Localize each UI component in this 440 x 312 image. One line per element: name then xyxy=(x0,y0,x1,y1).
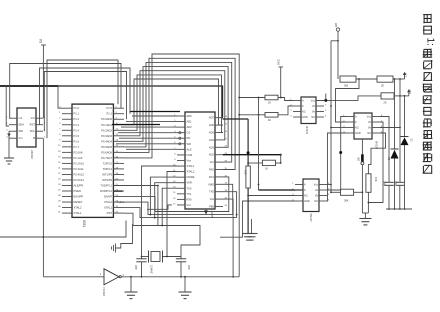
resistor R9 horizontal xyxy=(330,189,362,202)
svg-text:1K: 1K xyxy=(265,168,268,171)
svg-text:P0.4AD4: P0.4AD4 xyxy=(101,139,112,143)
svg-text:VMD: VMD xyxy=(208,182,214,186)
wire h2 MCU202 to IC2 row184 xyxy=(124,184,233,214)
IC U6 optocoupler xyxy=(343,113,383,150)
svg-text:GND: GND xyxy=(304,199,310,203)
wire row1 to R6 xyxy=(356,78,377,80)
capacitor C2 xyxy=(176,257,191,278)
svg-text:XTAL1: XTAL1 xyxy=(104,206,113,210)
svg-text:TX0: TX0 xyxy=(187,186,192,190)
svg-text:AD6: AD6 xyxy=(209,123,215,127)
svg-text:RX1: RX1 xyxy=(209,175,215,179)
IC U2 8031 MCU xyxy=(58,104,124,227)
ground GND2 xyxy=(125,276,138,299)
svg-text:P0.2AD2: P0.2AD2 xyxy=(101,128,112,132)
svg-text:RXD/P3.0: RXD/P3.0 xyxy=(100,189,112,193)
svg-text:SDA: SDA xyxy=(19,123,25,127)
svg-text:P1.5: P1.5 xyxy=(74,134,80,138)
svg-text:2K: 2K xyxy=(381,85,384,88)
wire bus loop outer (MCU 157.9 over top to h1) xyxy=(124,54,239,277)
svg-text:A: A xyxy=(304,183,306,187)
resistor R3 xyxy=(262,160,281,170)
svg-text:TX0: TX0 xyxy=(209,190,214,194)
svg-text:RST: RST xyxy=(107,211,113,215)
wire bold bus row2 xyxy=(112,124,160,126)
resistor R2 xyxy=(265,113,278,122)
wire v331 long xyxy=(330,41,338,192)
wire RST net down left xyxy=(0,138,126,277)
svg-text:XTAL1: XTAL1 xyxy=(74,211,83,215)
svg-text:RESET: RESET xyxy=(74,200,83,204)
svg-text:12MHZ: 12MHZ xyxy=(150,265,154,274)
wire ground join G5 xyxy=(362,213,368,218)
wire MCU185 node xyxy=(113,185,158,226)
label dbus xyxy=(117,201,125,204)
svg-text:Vcc: Vcc xyxy=(187,203,192,207)
wire IC5 r1 to cap Ca xyxy=(380,117,389,183)
svg-text:8155: 8155 xyxy=(210,211,214,218)
svg-text:CA: CA xyxy=(19,116,23,120)
capacitor C5 xyxy=(394,181,404,210)
svg-text:74LS04: 74LS04 xyxy=(102,287,106,297)
svg-text:XTAL2: XTAL2 xyxy=(104,200,113,204)
svg-text:NC: NC xyxy=(367,131,371,135)
IC U4 optocoupler xyxy=(290,97,327,135)
svg-text:NC: NC xyxy=(314,199,318,203)
svg-text:CS: CS xyxy=(187,131,191,135)
svg-text:ALE/PR: ALE/PR xyxy=(74,183,84,187)
svg-text:P1.3: P1.3 xyxy=(74,123,80,127)
svg-text:P2.4A12: P2.4A12 xyxy=(74,172,85,176)
svg-text:WR: WR xyxy=(187,142,191,146)
ground sideways xyxy=(112,224,133,253)
wire rail input xyxy=(43,276,104,278)
svg-text:K: K xyxy=(304,188,306,192)
svg-text:Vss: Vss xyxy=(187,158,192,162)
svg-text:1K: 1K xyxy=(268,102,271,105)
wire IC5 r4 loop to R8 xyxy=(368,133,385,174)
svg-text:10K: 10K xyxy=(244,170,247,175)
svg-text:VCC: VCC xyxy=(277,59,281,65)
svg-text:Vcc: Vcc xyxy=(314,183,319,187)
svg-text:SCL: SCL xyxy=(30,129,36,133)
wire h4 MCU213 to crystal cap2 xyxy=(124,213,200,256)
wire IC2 row12 down xyxy=(150,177,178,215)
svg-text:XTAL2: XTAL2 xyxy=(74,206,83,210)
wire bus loop x134 xyxy=(124,79,223,125)
svg-text:GB: GB xyxy=(334,23,338,27)
svg-text:NC: NC xyxy=(304,194,308,198)
wire R2 to IC3 pin2 xyxy=(278,106,293,115)
wire MCU pin1 from bold net xyxy=(58,86,62,108)
svg-text:30P: 30P xyxy=(134,265,138,270)
svg-text:TX1: TX1 xyxy=(187,192,192,196)
svg-text:Vcc: Vcc xyxy=(210,160,215,164)
wire R8 down xyxy=(368,192,370,213)
svg-text:RX0: RX0 xyxy=(187,197,193,201)
svg-text:c dbus: c dbus xyxy=(117,201,125,204)
svg-text:T0/P3.4: T0/P3.4 xyxy=(103,167,113,171)
svg-text:P0.0AD0: P0.0AD0 xyxy=(101,117,112,121)
svg-text:6N137: 6N137 xyxy=(305,126,309,135)
wire U1.6 to MCU P1.1 xyxy=(40,68,131,125)
svg-text:RD: RD xyxy=(187,136,191,140)
wire bus row thin g xyxy=(126,148,177,150)
svg-text:AD7: AD7 xyxy=(209,116,215,120)
wire crystal node row xyxy=(141,256,181,258)
power GB node xyxy=(334,23,340,42)
wire XTAL1 net xyxy=(142,166,178,257)
svg-text:EA/VP: EA/VP xyxy=(104,195,112,199)
wire row1 right end xyxy=(393,72,408,80)
wire bus loop x143 xyxy=(124,67,228,148)
resistor R7 row2 xyxy=(381,93,394,105)
wire row2 net xyxy=(316,94,381,102)
svg-text:INT1/P3: INT1/P3 xyxy=(102,172,112,176)
wire MCU bold stub xyxy=(114,190,123,192)
svg-text:L24: L24 xyxy=(404,72,408,77)
wire IC5 r2 to ground stem xyxy=(368,122,383,203)
IC U1 24C02 EEPROM xyxy=(6,108,46,159)
svg-text:P1.2: P1.2 xyxy=(74,117,80,121)
svg-text:NC: NC xyxy=(355,126,359,130)
svg-text:P2.0A8: P2.0A8 xyxy=(74,150,83,154)
svg-text:P0.1AD1: P0.1AD1 xyxy=(101,123,112,127)
svg-text:P1.6: P1.6 xyxy=(74,139,80,143)
resistor R6 row1 right xyxy=(377,76,393,88)
svg-text:AD5: AD5 xyxy=(209,131,215,135)
svg-text:Vss: Vss xyxy=(210,197,215,201)
wire GB down to Rd xyxy=(337,41,339,79)
svg-text:K: K xyxy=(302,104,304,108)
wire bus row thin b xyxy=(121,126,177,128)
resistor R1 xyxy=(265,95,278,104)
wire row2 right end xyxy=(394,89,412,97)
wire IC2 row14 down xyxy=(161,188,177,226)
wire IC4 pin1 right xyxy=(327,184,332,186)
svg-text:TXD/P3.1: TXD/P3.1 xyxy=(100,183,112,187)
svg-text:AD2: AD2 xyxy=(209,153,215,157)
svg-text:P0.3AD3: P0.3AD3 xyxy=(101,134,112,138)
svg-text:10K: 10K xyxy=(374,177,377,182)
svg-text:360: 360 xyxy=(344,85,349,88)
wire IC2 row13 down xyxy=(154,183,177,219)
ground GND4 xyxy=(246,219,258,240)
svg-text:Vcc: Vcc xyxy=(311,99,316,103)
wire IC4 pin2 right to IC5 xyxy=(327,117,346,191)
wire U1.1 to MCU P1.0 xyxy=(10,64,121,119)
wire v400 down caps xyxy=(399,96,401,182)
svg-text:K: K xyxy=(355,120,357,124)
ground IC2 bottom xyxy=(204,209,214,218)
svg-text:P0.7AD7: P0.7AD7 xyxy=(101,156,112,160)
wire rail output xyxy=(121,276,239,278)
svg-text:P1.1: P1.1 xyxy=(106,112,112,116)
capacitor C4 xyxy=(383,181,394,210)
wire R3 net xyxy=(247,155,281,164)
title text vertical xyxy=(423,14,436,174)
resistor R8 vertical xyxy=(366,174,377,193)
wire bus row thin e xyxy=(119,137,177,139)
svg-text:2K: 2K xyxy=(384,102,387,105)
wire U1.7 to MCU P1.2 xyxy=(44,72,126,132)
node EA wire xyxy=(39,38,46,118)
wire h1 MCU196 to IC2 row176 xyxy=(124,177,229,212)
wire IC4 pin4 right to IC5 pin4 xyxy=(327,133,346,201)
svg-text:B: B xyxy=(33,136,35,140)
wire bus loop x146 xyxy=(124,62,232,162)
wire bus loop x137 xyxy=(124,75,223,133)
IC U5 optocoupler xyxy=(292,179,330,222)
svg-text:GND: GND xyxy=(302,115,308,119)
resistor R4 vertical xyxy=(244,166,251,188)
wire IC5 pin3 left xyxy=(331,127,346,129)
svg-text:30P: 30P xyxy=(187,265,191,270)
crystal Y1 xyxy=(149,251,163,274)
wire bus loop x140 xyxy=(124,71,225,140)
wire IC4 pin4 to bottom corner xyxy=(220,201,295,237)
svg-text:PB0: PB0 xyxy=(209,205,215,209)
IC U3 8155 expander xyxy=(173,112,228,209)
svg-text:AD3: AD3 xyxy=(209,145,215,149)
svg-text:P1.7: P1.7 xyxy=(74,145,80,149)
wire IC4 pin3 left xyxy=(247,195,295,197)
diode D1 xyxy=(401,137,413,146)
svg-text:PSEN: PSEN xyxy=(74,189,81,193)
svg-text:AD2: AD2 xyxy=(187,125,193,129)
wire Rd loop down to IC5 pin2 xyxy=(336,78,360,122)
svg-text:P1.0: P1.0 xyxy=(106,106,112,110)
wire bus row thin d xyxy=(132,115,177,117)
wire bus row thin f xyxy=(116,143,177,145)
svg-text:ALE: ALE xyxy=(187,147,192,151)
op-amp U7 inverter xyxy=(100,269,125,297)
wire row2 net xyxy=(238,114,265,116)
svg-text:P2.3A11: P2.3A11 xyxy=(74,167,85,171)
ground under R4 xyxy=(242,233,254,240)
wire rail right xyxy=(386,208,412,210)
wire bold IC2 row6 xyxy=(223,154,282,156)
wire h3 MCU207 to IC2 row191 xyxy=(124,192,238,218)
svg-text:NC: NC xyxy=(302,110,306,114)
wire row1 net xyxy=(238,97,265,99)
svg-text:1K: 1K xyxy=(268,119,271,122)
wire bold vertical R4 branch xyxy=(223,119,250,233)
svg-text:IO/M: IO/M xyxy=(187,153,193,157)
svg-text:P2.2A10: P2.2A10 xyxy=(74,161,85,165)
ground GND5 xyxy=(359,219,371,225)
svg-text:AD0: AD0 xyxy=(187,114,193,118)
wire U1 pin2 from bold net xyxy=(5,85,59,126)
capacitor C1 xyxy=(134,257,147,278)
svg-text:NC: NC xyxy=(311,115,315,119)
svg-text:P1.0: P1.0 xyxy=(74,106,80,110)
wire IC2 row199 to rail xyxy=(223,199,234,278)
diode D2 xyxy=(387,149,399,161)
svg-text:A: A xyxy=(355,115,357,119)
svg-text:RST: RST xyxy=(30,123,36,127)
wire bold net A (left edge to IC2 pin1) xyxy=(0,86,223,118)
wire VCC stub xyxy=(277,59,284,98)
svg-text:VAR: VAR xyxy=(187,181,192,185)
wire bold to IC4 pin2 xyxy=(259,189,304,191)
svg-text:WR: WR xyxy=(19,129,24,133)
wire v258 down to IC4 xyxy=(258,98,260,191)
wire bus row thin c xyxy=(118,132,177,134)
wire U1.8 over top xyxy=(47,60,118,138)
wire R1 to IC3 pin1 xyxy=(278,98,293,101)
svg-text:AD1: AD1 xyxy=(187,120,193,124)
svg-text:P2.1A9: P2.1A9 xyxy=(74,156,83,160)
ground GND1 xyxy=(4,131,14,164)
connector flag J1 xyxy=(358,139,364,213)
wire IC5 r3 to v400 xyxy=(380,127,401,129)
wire bus loop x149 xyxy=(124,58,235,169)
ground GND3 xyxy=(179,276,192,299)
wire v400 row1-row2 xyxy=(399,79,401,96)
svg-text:24C02: 24C02 xyxy=(30,150,34,159)
resistor R5 row1 left xyxy=(340,76,356,88)
svg-text:INT0/P3: INT0/P3 xyxy=(102,178,112,182)
svg-text:1:: 1: xyxy=(425,38,436,46)
svg-text:EA/VPP: EA/VPP xyxy=(74,195,84,199)
svg-text:39K: 39K xyxy=(344,200,349,203)
svg-text:P1.4: P1.4 xyxy=(74,128,80,132)
svg-text:T1/P3.5: T1/P3.5 xyxy=(103,161,113,165)
wire v394 diode branch xyxy=(394,79,396,210)
svg-text:8031: 8031 xyxy=(82,220,86,227)
svg-text:RX0: RX0 xyxy=(209,168,215,172)
wire bus row thin a xyxy=(126,121,177,123)
svg-text:XTAL2: XTAL2 xyxy=(187,170,195,174)
svg-text:A: A xyxy=(302,99,304,103)
svg-text:MODE: MODE xyxy=(187,175,195,179)
svg-text:Vcc: Vcc xyxy=(31,116,36,120)
svg-text:P2.5A13: P2.5A13 xyxy=(74,178,85,182)
svg-text:P0.6AD6: P0.6AD6 xyxy=(101,150,112,154)
svg-text:AD4: AD4 xyxy=(209,138,215,142)
wire bold bus row1 xyxy=(130,111,180,113)
svg-text:P0.5AD5: P0.5AD5 xyxy=(101,145,112,149)
wire v404 diode branch xyxy=(404,96,406,210)
wire IC2 row17 down xyxy=(147,205,172,209)
svg-text:GND: GND xyxy=(355,131,361,135)
wire XTAL2 net xyxy=(167,172,177,257)
svg-text:Vcc: Vcc xyxy=(367,115,372,119)
svg-text:P1.1: P1.1 xyxy=(74,112,80,116)
svg-text:XTAL1: XTAL1 xyxy=(187,164,195,168)
svg-text:6N137: 6N137 xyxy=(309,214,313,223)
svg-text:12V: 12V xyxy=(408,89,412,94)
